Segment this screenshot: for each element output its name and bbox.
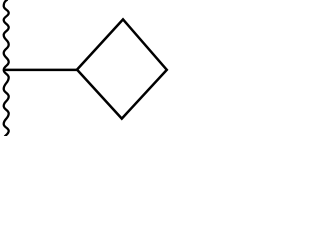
diamond node xyxy=(77,19,167,118)
wire from squiggle to diamond xyxy=(5,69,78,72)
torn-edge squiggle (break line) xyxy=(4,0,9,137)
